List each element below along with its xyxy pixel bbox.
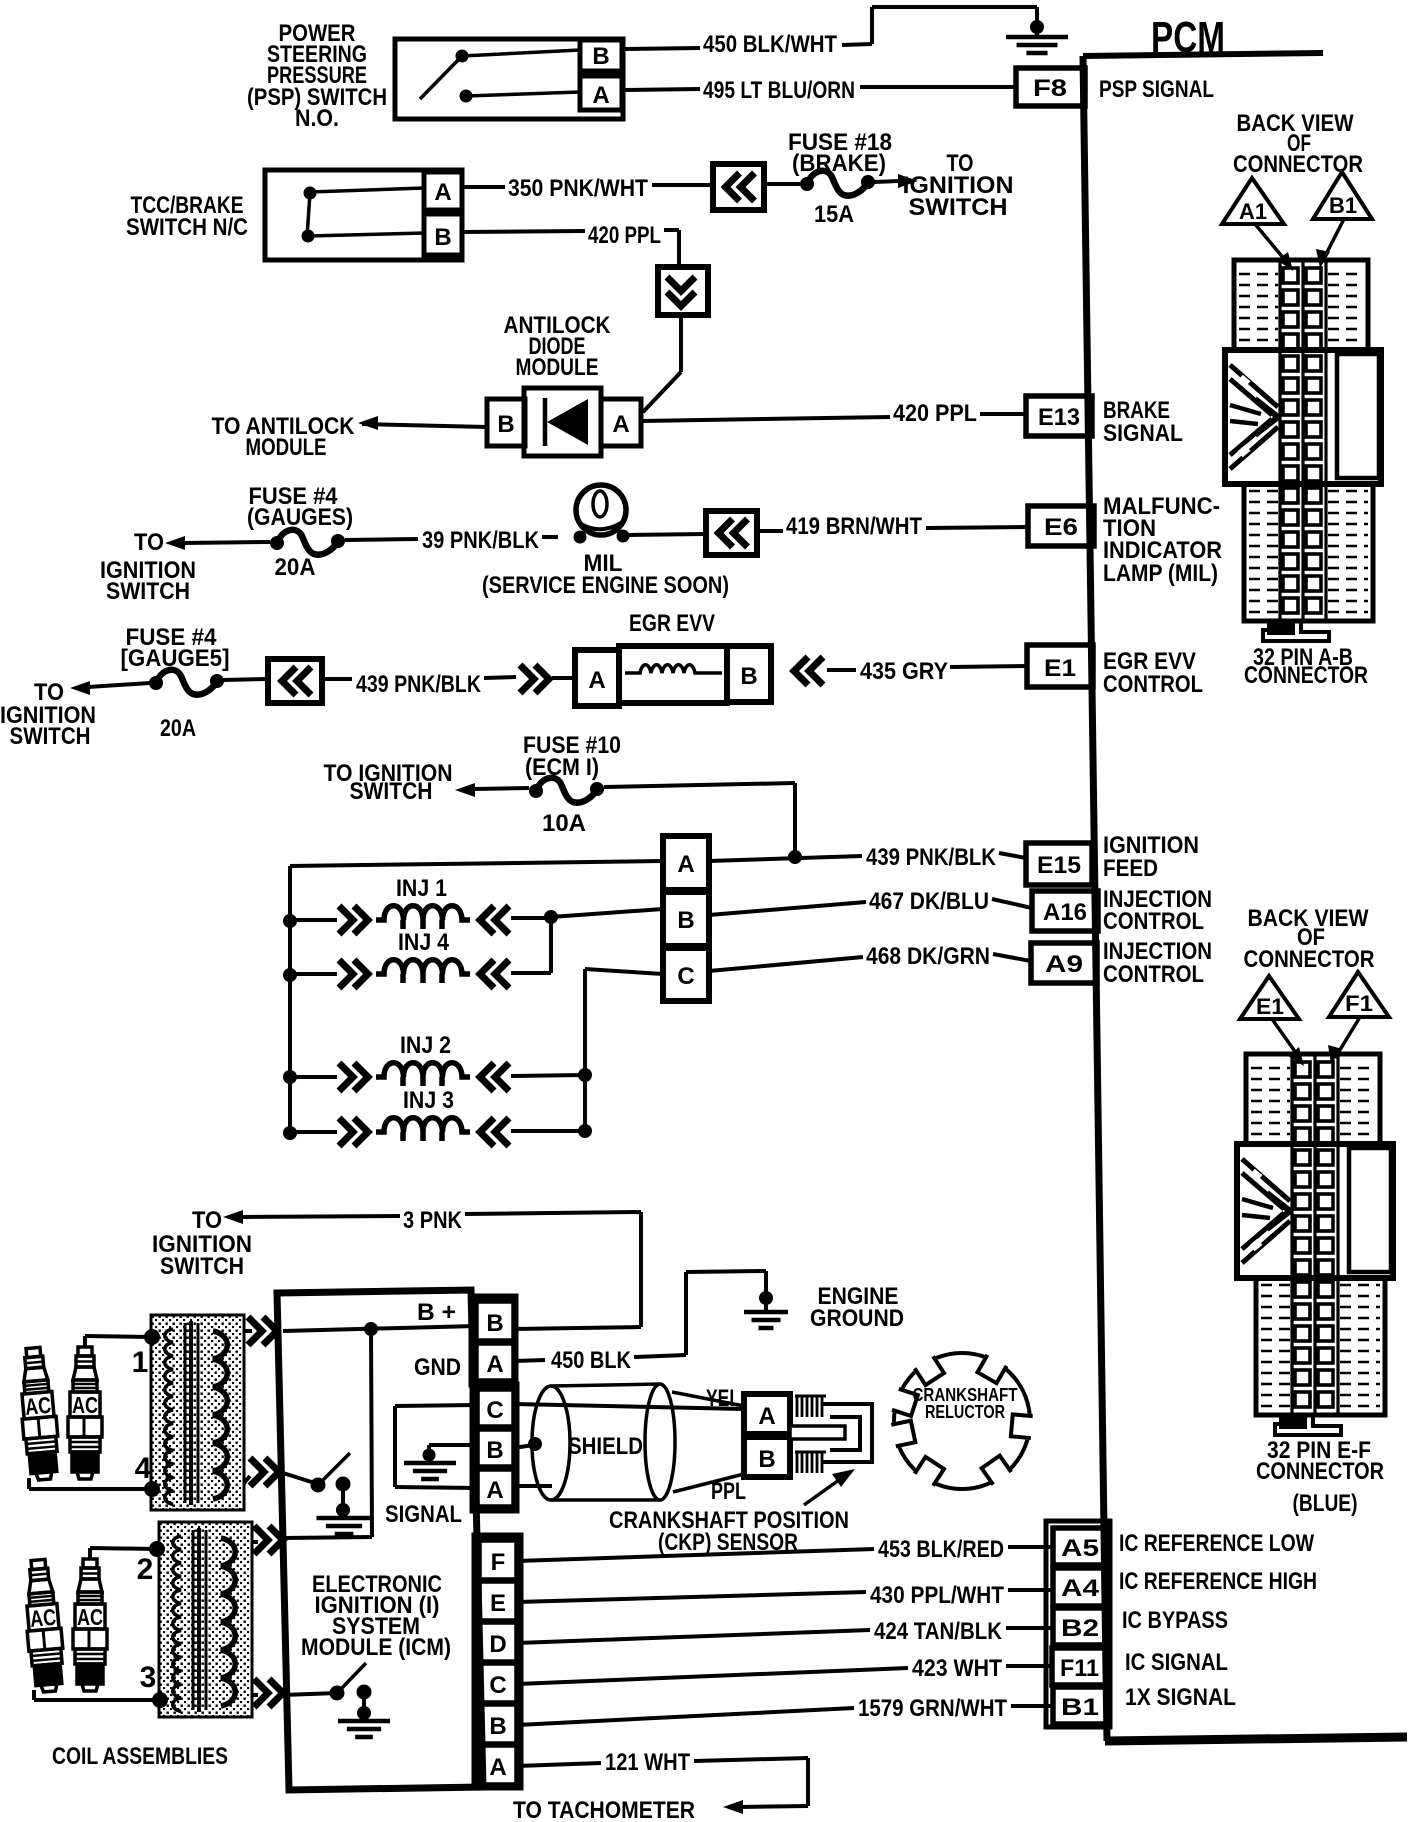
svg-text:RELUCTOR: RELUCTOR bbox=[925, 1402, 1005, 1422]
svg-text:D: D bbox=[489, 1631, 506, 1658]
svg-text:TO TACHOMETER: TO TACHOMETER bbox=[513, 1797, 695, 1822]
pin A bbox=[601, 399, 641, 446]
PCM pin E6 bbox=[1028, 506, 1094, 546]
wire to antilock module bbox=[362, 424, 487, 427]
pointer arrow to sensor tip bbox=[804, 1475, 846, 1505]
fuse 4 GAUGE5 20A bbox=[70, 681, 90, 695]
wire 467 DK/BLU to A16 bbox=[709, 902, 866, 915]
ICM pin B (B+) bbox=[476, 1301, 514, 1341]
CKP pin A bbox=[744, 1394, 790, 1434]
svg-text:E15: E15 bbox=[1037, 852, 1081, 879]
svg-text:A: A bbox=[486, 1477, 503, 1504]
ICM switch 2 bbox=[283, 1693, 337, 1695]
svg-text:SWITCH: SWITCH bbox=[106, 578, 190, 605]
connector body E-F bbox=[1237, 1054, 1393, 1435]
wire 450 BLK/WHT bbox=[622, 48, 700, 49]
svg-text:420 PPL: 420 PPL bbox=[893, 400, 977, 427]
svg-text:467 DK/BLU: 467 DK/BLU bbox=[869, 888, 989, 915]
crankshaft reluctor wheel bbox=[894, 1353, 1030, 1489]
pin B bbox=[580, 40, 622, 71]
ICM pin D bbox=[479, 1622, 517, 1662]
connector chevron box bbox=[713, 164, 764, 210]
svg-text:PSP SIGNAL: PSP SIGNAL bbox=[1099, 76, 1214, 103]
coil 4 wire to plug (tilted) bbox=[144, 1481, 160, 1497]
coil 4 output chevrons bbox=[244, 1476, 250, 1483]
spark plug 2 bbox=[73, 1559, 107, 1691]
pin A bbox=[580, 76, 622, 110]
pin B bbox=[487, 399, 525, 446]
svg-text:(ECM I): (ECM I) bbox=[525, 754, 599, 781]
svg-text:A: A bbox=[612, 411, 629, 438]
svg-text:COIL ASSEMBLIES: COIL ASSEMBLIES bbox=[52, 1743, 228, 1770]
svg-text:SHIELD: SHIELD bbox=[568, 1433, 643, 1460]
svg-text:INJ 4: INJ 4 bbox=[398, 929, 450, 956]
svg-text:SIGNAL: SIGNAL bbox=[1103, 420, 1183, 447]
svg-text:350 PNK/WHT: 350 PNK/WHT bbox=[508, 175, 648, 202]
pointer lines bbox=[1255, 224, 1290, 266]
svg-text:A: A bbox=[434, 179, 451, 206]
connector chevron box bbox=[268, 659, 322, 703]
shield cylinder bbox=[532, 1386, 570, 1500]
svg-text:B: B bbox=[497, 411, 514, 438]
engine ground bbox=[759, 1291, 773, 1305]
pointer lines bbox=[1272, 1019, 1301, 1060]
wire PPL from pin A bbox=[514, 1484, 552, 1488]
svg-text:453 BLK/RED: 453 BLK/RED bbox=[878, 1536, 1004, 1563]
svg-text:INJ 2: INJ 2 bbox=[400, 1032, 451, 1059]
PCM pin F8 bbox=[1016, 68, 1085, 106]
MIL lamp bbox=[576, 485, 626, 535]
svg-text:E1: E1 bbox=[1256, 994, 1284, 1019]
svg-text:121 WHT: 121 WHT bbox=[605, 1749, 690, 1776]
coil assembly 1-4 bbox=[151, 1315, 244, 1510]
svg-text:B +: B + bbox=[417, 1299, 456, 1326]
svg-text:1: 1 bbox=[132, 1346, 149, 1379]
svg-text:E: E bbox=[490, 1590, 506, 1617]
svg-text:15A: 15A bbox=[814, 201, 854, 228]
svg-text:B2: B2 bbox=[1061, 1615, 1099, 1642]
svg-text:GND: GND bbox=[414, 1354, 461, 1381]
spark plug (pair2 left, tilted) bbox=[21, 1559, 66, 1693]
TCC brake switch bbox=[265, 170, 462, 260]
wire to pin C bbox=[583, 969, 587, 1131]
spark plug 1 bbox=[68, 1347, 102, 1479]
svg-text:495 LT BLU/ORN: 495 LT BLU/ORN bbox=[703, 77, 855, 104]
wire 419 BRN/WHT bbox=[629, 534, 706, 535]
svg-text:435 GRY: 435 GRY bbox=[860, 658, 948, 685]
wire 420 PPL bbox=[462, 231, 585, 232]
wire 39 PNK/BLK bbox=[345, 539, 418, 540]
svg-text:(BRAKE): (BRAKE) bbox=[792, 150, 886, 177]
svg-text:1579 GRN/WHT: 1579 GRN/WHT bbox=[858, 1695, 1007, 1722]
svg-text:A: A bbox=[588, 667, 605, 694]
wire 350 PNK/WHT bbox=[462, 185, 505, 189]
svg-text:C: C bbox=[486, 1397, 503, 1424]
svg-text:E6: E6 bbox=[1044, 514, 1078, 541]
ICM pin A (GND) bbox=[476, 1343, 514, 1381]
pin B bbox=[424, 214, 462, 255]
svg-text:CONNECTOR: CONNECTOR bbox=[1244, 946, 1375, 973]
left feed bus bbox=[288, 866, 292, 1133]
svg-text:IC REFERENCE LOW: IC REFERENCE LOW bbox=[1119, 1530, 1314, 1557]
callout triangle E1 bbox=[1240, 976, 1299, 1019]
coil 2 output chevrons bbox=[251, 1540, 258, 1544]
fuse 4 GAUGES 20A bbox=[165, 536, 185, 550]
svg-text:B: B bbox=[677, 907, 694, 934]
converging cable outlines bbox=[672, 1392, 744, 1406]
svg-text:A: A bbox=[486, 1351, 503, 1378]
svg-text:FEED: FEED bbox=[1103, 855, 1158, 882]
switch arm bbox=[420, 57, 461, 99]
svg-text:CONNECTOR: CONNECTOR bbox=[1256, 1458, 1384, 1485]
svg-text:B: B bbox=[489, 1713, 506, 1740]
svg-text:439 PNK/BLK: 439 PNK/BLK bbox=[866, 844, 997, 871]
svg-text:IC BYPASS: IC BYPASS bbox=[1122, 1607, 1228, 1634]
wire 468 DK/GRN to A9 bbox=[709, 957, 863, 971]
PCM module boundary bbox=[1083, 53, 1323, 56]
svg-text:3 PNK: 3 PNK bbox=[403, 1207, 463, 1234]
svg-text:CONTROL: CONTROL bbox=[1103, 671, 1203, 698]
wire 121 WHT to tachometer bbox=[517, 1763, 601, 1766]
callout triangle B1 bbox=[1313, 172, 1372, 219]
svg-text:IC REFERENCE HIGH: IC REFERENCE HIGH bbox=[1119, 1568, 1317, 1595]
svg-text:C: C bbox=[489, 1672, 506, 1699]
ICM pin E bbox=[479, 1581, 517, 1621]
svg-text:3: 3 bbox=[140, 1661, 157, 1694]
ICM pin F bbox=[479, 1540, 517, 1580]
svg-text:4: 4 bbox=[135, 1452, 152, 1485]
svg-text:TO: TO bbox=[192, 1207, 222, 1234]
svg-text:A: A bbox=[489, 1754, 506, 1781]
CKP sensor body bbox=[796, 1395, 799, 1417]
svg-text:EGR EVV: EGR EVV bbox=[629, 610, 715, 637]
svg-text:PCM: PCM bbox=[1151, 13, 1225, 62]
coil 3 wire to plug (tilted) bbox=[152, 1692, 168, 1708]
PCM pin E13 bbox=[1026, 396, 1092, 436]
svg-text:SIGNAL: SIGNAL bbox=[385, 1501, 462, 1528]
svg-text:B: B bbox=[740, 663, 757, 690]
svg-text:E1: E1 bbox=[1044, 655, 1076, 682]
svg-text:B: B bbox=[486, 1310, 503, 1337]
svg-text:(SERVICE ENGINE SOON): (SERVICE ENGINE SOON) bbox=[482, 572, 729, 599]
PCM pin F11 bbox=[1052, 1648, 1107, 1685]
svg-text:420 PPL: 420 PPL bbox=[588, 222, 661, 249]
svg-text:N.O.: N.O. bbox=[295, 105, 339, 132]
CKP pin B bbox=[744, 1437, 790, 1477]
PCM pin B1 bbox=[1053, 1687, 1107, 1724]
ICM pin A (signal) bbox=[477, 1469, 514, 1507]
shield drain bracket bbox=[395, 1405, 476, 1406]
svg-text:B1: B1 bbox=[1329, 193, 1357, 218]
svg-text:2: 2 bbox=[137, 1553, 154, 1586]
svg-text:A: A bbox=[677, 851, 694, 878]
coil 1 output chevrons bbox=[244, 1329, 252, 1333]
svg-text:450 BLK/WHT: 450 BLK/WHT bbox=[703, 31, 837, 58]
power steering pressure switch PSP bbox=[395, 39, 623, 119]
svg-text:F11: F11 bbox=[1060, 1655, 1099, 1682]
svg-text:F8: F8 bbox=[1033, 75, 1067, 102]
svg-text:20A: 20A bbox=[160, 715, 196, 742]
svg-text:10A: 10A bbox=[542, 810, 586, 837]
wire 430 PPL/WHT to pin A4 bbox=[517, 1592, 866, 1602]
down chevron box bbox=[658, 267, 708, 315]
svg-text:A4: A4 bbox=[1061, 1575, 1100, 1602]
svg-text:B: B bbox=[486, 1437, 503, 1464]
svg-text:GROUND: GROUND bbox=[810, 1305, 904, 1332]
injector harness connector pins A B C bbox=[663, 836, 709, 890]
svg-text:SWITCH: SWITCH bbox=[909, 194, 1008, 221]
svg-text:F: F bbox=[491, 1549, 506, 1576]
ICM switch 1 bbox=[283, 1473, 318, 1484]
svg-text:SWITCH: SWITCH bbox=[350, 778, 433, 805]
svg-text:A: A bbox=[758, 1403, 775, 1430]
svg-text:(BLUE): (BLUE) bbox=[1293, 1490, 1358, 1517]
ICM pin A bbox=[479, 1745, 517, 1785]
svg-text:SWITCH N/C: SWITCH N/C bbox=[126, 214, 248, 241]
svg-text:SWITCH: SWITCH bbox=[160, 1253, 244, 1280]
svg-text:INJ 1: INJ 1 bbox=[396, 875, 447, 902]
svg-text:YEL: YEL bbox=[706, 1385, 740, 1412]
wire 439 PNK/BLK to E15 bbox=[788, 850, 802, 864]
svg-text:TO: TO bbox=[134, 529, 164, 556]
wire 420 PPL to E13 bbox=[641, 417, 890, 421]
svg-text:INJ 3: INJ 3 bbox=[403, 1087, 454, 1114]
PCM pin E1 bbox=[1027, 645, 1093, 687]
svg-text:[GAUGE5]: [GAUGE5] bbox=[121, 645, 230, 672]
svg-text:B: B bbox=[758, 1446, 775, 1473]
spark plug (pair1 left, tilted) bbox=[16, 1347, 61, 1481]
PCM bottom pin group border bbox=[1046, 1521, 1110, 1727]
svg-text:439 PNK/BLK: 439 PNK/BLK bbox=[356, 671, 482, 698]
svg-text:CONNECTOR: CONNECTOR bbox=[1244, 662, 1368, 689]
svg-text:MODULE (ICM): MODULE (ICM) bbox=[301, 1634, 451, 1661]
coil assembly 2-3 bbox=[159, 1522, 252, 1717]
ICM pin B (shield) bbox=[477, 1429, 514, 1467]
ICM pin B bbox=[479, 1704, 517, 1744]
B+ wire and junction bbox=[283, 1326, 476, 1331]
wire 1579 GRN/WHT to pin B1 bbox=[517, 1708, 854, 1725]
wire 453 BLK/RED to pin A5 bbox=[517, 1549, 874, 1561]
svg-text:B: B bbox=[592, 43, 609, 70]
coil 3 output chevrons bbox=[251, 1693, 258, 1697]
inner ground to pin B bbox=[429, 1443, 477, 1447]
svg-text:A5: A5 bbox=[1061, 1535, 1099, 1562]
svg-text:423 WHT: 423 WHT bbox=[912, 1655, 1002, 1682]
svg-text:A1: A1 bbox=[1239, 199, 1267, 224]
callout triangle A1 bbox=[1222, 178, 1284, 224]
svg-text:IC SIGNAL: IC SIGNAL bbox=[1125, 1649, 1228, 1676]
svg-text:F1: F1 bbox=[1345, 991, 1373, 1016]
svg-text:A9: A9 bbox=[1045, 951, 1083, 978]
svg-text:430 PPL/WHT: 430 PPL/WHT bbox=[870, 1582, 1004, 1609]
svg-text:A16: A16 bbox=[1043, 899, 1087, 926]
wire 3 PNK bbox=[223, 1210, 243, 1224]
wire 424 TAN/BLK to pin B2 bbox=[517, 1630, 870, 1643]
fuse 18 BRAKE 15A bbox=[800, 171, 875, 196]
svg-text:MODULE: MODULE bbox=[516, 354, 599, 381]
wire bus to pin A bbox=[290, 861, 663, 866]
wire YEL from pin C bbox=[514, 1404, 744, 1409]
svg-text:20A: 20A bbox=[275, 554, 316, 581]
svg-text:A: A bbox=[592, 82, 609, 109]
svg-text:E13: E13 bbox=[1038, 404, 1080, 431]
svg-text:C: C bbox=[677, 963, 694, 990]
wire 450 BLK bbox=[514, 1360, 545, 1361]
connector body A-B bbox=[1225, 260, 1381, 641]
svg-text:B1: B1 bbox=[1061, 1694, 1099, 1721]
svg-text:1X SIGNAL: 1X SIGNAL bbox=[1125, 1684, 1236, 1711]
callout triangle F1 bbox=[1329, 972, 1389, 1017]
coil 1 wire to plug 1 bbox=[144, 1329, 160, 1345]
svg-text:CONTROL: CONTROL bbox=[1103, 908, 1204, 935]
electronic ignition system module ICM bbox=[277, 1290, 483, 1790]
shield wire from pin B bbox=[514, 1445, 533, 1448]
svg-text:SWITCH: SWITCH bbox=[10, 723, 91, 750]
ICM pin group borders bbox=[471, 1296, 516, 1385]
ICM pin C bbox=[477, 1389, 514, 1427]
PCM pin A5 bbox=[1053, 1528, 1107, 1565]
coil 2 wire to plug bbox=[149, 1541, 165, 1557]
svg-text:LAMP (MIL): LAMP (MIL) bbox=[1103, 560, 1218, 587]
wire 423 WHT to pin F11 bbox=[517, 1668, 908, 1684]
svg-text:B: B bbox=[434, 224, 451, 251]
pin A bbox=[424, 172, 462, 210]
svg-text:MODULE: MODULE bbox=[246, 434, 327, 461]
antilock diode module bbox=[524, 388, 601, 456]
ground (top) bbox=[1030, 20, 1044, 34]
svg-text:CONTROL: CONTROL bbox=[1103, 961, 1204, 988]
svg-text:PPL: PPL bbox=[711, 1478, 746, 1505]
svg-text:450 BLK: 450 BLK bbox=[551, 1347, 632, 1374]
svg-text:(GAUGES): (GAUGES) bbox=[247, 504, 353, 531]
wire 495 LT BLU/ORN bbox=[622, 89, 700, 90]
svg-text:39 PNK/BLK: 39 PNK/BLK bbox=[422, 527, 540, 554]
PCM pin B2 bbox=[1053, 1608, 1107, 1645]
svg-text:424 TAN/BLK: 424 TAN/BLK bbox=[874, 1618, 1003, 1645]
PCM pin A4 bbox=[1053, 1568, 1107, 1606]
svg-text:468 DK/GRN: 468 DK/GRN bbox=[866, 943, 990, 970]
svg-text:419 BRN/WHT: 419 BRN/WHT bbox=[786, 513, 922, 540]
ICM pin C bbox=[479, 1663, 517, 1703]
